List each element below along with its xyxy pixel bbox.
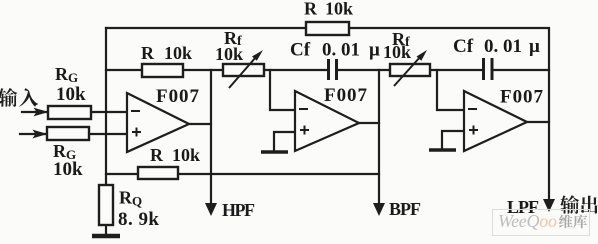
- wire: op3 non-inverting input to ground: [442, 131, 464, 149]
- input arrow 1: [34, 108, 49, 117]
- svg-text:Cf0. 01μ: Cf0. 01μ: [453, 36, 540, 57]
- ground (below RQ): [92, 234, 120, 239]
- wire: op3 output stub: [527, 121, 549, 123]
- svg-text:HPF: HPF: [222, 200, 255, 220]
- label 输 (input char 1): [0, 88, 17, 107]
- svg-text:10k: 10k: [53, 159, 83, 180]
- wire: op2 non-inverting input to ground: [274, 132, 295, 150]
- op-amp U3 F007 (integrator 2): [464, 91, 527, 151]
- resistor R 10k (BPF feedback): [138, 167, 178, 179]
- wire: op3 inverting-input branch: [437, 70, 464, 110]
- svg-text:R10k: R10k: [304, 0, 353, 19]
- wire: input 1 to RG1 and op1 inverting input: [22, 111, 127, 113]
- ground (op2 non-inverting input): [261, 150, 288, 154]
- resistor Rf 10k variable (op3 integrator input): [390, 50, 430, 86]
- svg-text:RG: RG: [55, 64, 78, 85]
- watermark 库: [573, 215, 587, 229]
- svg-text:BPF: BPF: [389, 199, 421, 219]
- wire: op1 output stub: [189, 123, 211, 125]
- wire: input 2 to RG2 and op1 non-inverting input: [20, 133, 127, 135]
- wire: mid bus y=70 segment 1 (input node to Cf1 left plate): [106, 69, 327, 71]
- svg-text:F007: F007: [156, 86, 200, 107]
- svg-text:R10k: R10k: [141, 43, 192, 63]
- wire: RQ bottom lead to ground: [105, 225, 107, 234]
- wire: top feedback from LPF output down right side: [106, 28, 549, 199]
- svg-text:WeeQoo: WeeQoo: [498, 211, 557, 231]
- svg-text:F007: F007: [500, 87, 544, 108]
- svg-text:8. 9k: 8. 9k: [118, 209, 159, 230]
- wire: BPF output vertical: [378, 70, 380, 203]
- watermark 维: [559, 215, 573, 229]
- label 输 (output char 1): [560, 195, 579, 214]
- resistor R 10k (top feedback from LPF): [306, 22, 349, 35]
- node BPF output arrow: [373, 203, 385, 216]
- resistor RQ 8.9k (vertical): [99, 185, 113, 225]
- wire: left input-node vertical: [105, 28, 107, 185]
- wire: bottom BPF feedback y=174: [106, 173, 379, 175]
- svg-text:Cf0. 01μ: Cf0. 01μ: [290, 40, 380, 61]
- capacitor Cf2 0.01u: [484, 58, 493, 80]
- label 入 (input char 2): [19, 88, 38, 107]
- svg-text:R10k: R10k: [150, 145, 200, 165]
- op-amp U1 F007 (summing amp): [127, 93, 189, 152]
- resistor RG1 10k (input): [48, 106, 91, 119]
- wire: mid bus y=70 segment 2 (Cf1 right plate to Cf2 left plate): [338, 69, 482, 71]
- watermark box: [493, 210, 590, 236]
- wire: mid bus y=70 segment 3 (Cf2 right plate to LPF vertical): [494, 69, 549, 71]
- ground (op3 non-inverting input): [429, 148, 456, 152]
- wire: op2 inverting-input branch: [270, 70, 295, 110]
- resistor Rf 10k variable (op2 integrator input): [223, 50, 264, 88]
- capacitor Cf1 0.01u: [329, 59, 337, 80]
- svg-text:F007: F007: [324, 85, 368, 106]
- input arrow 2: [33, 130, 48, 139]
- svg-text:10k: 10k: [383, 42, 411, 62]
- label 出 (output char 2): [581, 196, 598, 214]
- wire: HPF output vertical: [210, 70, 212, 203]
- svg-text:RQ: RQ: [119, 188, 142, 209]
- op-amp U2 F007 (integrator 1): [295, 91, 359, 151]
- node LPF output arrow: [543, 199, 555, 212]
- svg-text:10k: 10k: [56, 84, 86, 105]
- resistor RG2 10k (input): [47, 127, 89, 140]
- resistor R 10k (op1 feedback): [142, 64, 183, 77]
- node HPF output arrow: [205, 203, 217, 216]
- svg-text:10k: 10k: [215, 44, 243, 64]
- wire: op2 output stub: [359, 122, 379, 124]
